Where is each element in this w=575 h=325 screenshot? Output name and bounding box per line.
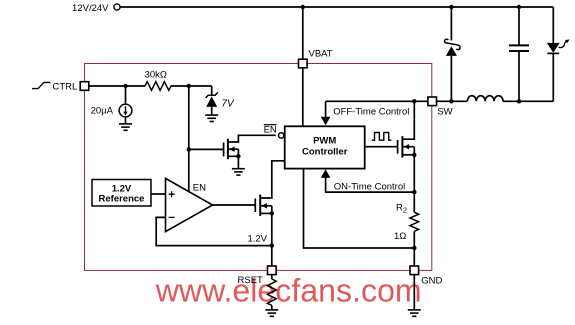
wire PWM bottom pin to sense node [304,169,415,248]
inductor L1 [467,96,503,102]
block PWM Controller [285,126,365,168]
wire VBAT to PWM controller [302,68,304,127]
junction SW line / Q3 drain [412,99,416,103]
capacitor C1 [509,45,529,51]
svg-text:Controller: Controller [302,147,348,158]
wire capacitor branch from top rail [518,7,520,45]
svg-text:1Ω: 1Ω [394,231,406,242]
wire op-amp output to Q2 gate [213,204,256,206]
wire SW line to inductor [437,100,468,102]
junction SW line / schottky [449,99,453,103]
wire OFF-time control with arrow into PWM top [321,101,331,125]
junction zener node / EN feed [187,84,191,88]
junction top rail / VBAT [301,5,305,9]
wire SW node line [326,100,428,102]
wire GND terminal to ground [413,275,415,309]
svg-text:VBAT: VBAT [309,49,333,60]
node 12V/24V terminal circle [114,4,120,10]
wire reference to op-amp + [151,193,166,195]
svg-text:20µA: 20µA [91,106,114,117]
junction EN feed / Q1 gate [187,147,191,151]
resistor R2 body [410,212,419,231]
transistor Q3 (power switch NMOS) [398,101,417,212]
svg-text:1.2V: 1.2V [247,234,267,245]
svg-text:GND: GND [421,275,442,286]
svg-text:ON-Time Control: ON-Time Control [334,181,405,192]
svg-text:RSET: RSET [238,275,264,286]
junction ON-time / Q3 source [412,190,416,194]
node CTRL terminal square [80,82,89,91]
node ENbar circle at PWM input [279,133,284,138]
wire PWM output to Q3 gate [365,146,398,148]
node CTRL waveform glyph [32,82,51,88]
ground below RSET [265,310,278,316]
resistor RSET body [267,275,276,309]
ground below zener [205,115,218,121]
transistor Q1 (EN driver NMOS) [224,135,276,168]
svg-text:EN: EN [264,124,277,135]
svg-text:SW: SW [437,107,452,118]
ground below GND terminal [408,310,421,316]
wire resistor to zener node [171,85,212,87]
wire VBAT drop from rail [302,7,304,59]
svg-text:OFF-Time Control: OFF-Time Control [333,106,409,117]
current source I1 symbol [119,86,132,123]
junction R2 bottom / PWM sense [412,246,416,250]
junction CTRL / current source [123,84,127,88]
wire CTRL to resistor R 30k [89,85,145,87]
svg-text:www.elecfans.com: www.elecfans.com [155,273,422,309]
svg-text:PWM: PWM [313,136,336,147]
svg-text:30kΩ: 30kΩ [145,69,167,80]
svg-text:EN: EN [193,182,206,193]
svg-text:Reference: Reference [99,194,145,205]
node VBAT terminal square [299,59,308,68]
squarewave glyph at PWM output [372,133,392,141]
node SW terminal square [428,97,437,106]
LED D3 [547,43,560,101]
ground below current source [119,124,132,130]
svg-text:1.2V: 1.2V [112,183,132,194]
op-amp U1 comparator [166,178,213,231]
node ENbar label with overline [264,124,277,135]
svg-text:CTRL: CTRL [53,81,78,92]
junction feedback / source node [270,243,274,247]
wire schottky branch from top rail [450,7,452,41]
junction top rail / capacitor [517,5,521,9]
transistor Q2 (RSET regulator NMOS) [255,161,284,266]
resistor 30k body [145,82,171,91]
LED light arrow squiggle [559,40,570,48]
wire R2 to GND terminal [413,231,415,266]
svg-text:12V/24V: 12V/24V [72,3,109,14]
ground below Q1 [232,169,245,175]
wire inductor to LED bottom [503,100,553,102]
wire Q1 gate [189,148,224,150]
node RSET terminal square [268,266,277,275]
junction top rail / schottky [449,5,453,9]
wire ON-time control with arrow into PWM bottom [321,169,415,192]
boundary box (red) [85,64,432,271]
svg-text:7V: 7V [221,98,235,109]
wire LED branch (top right corner) [552,7,554,43]
junction SW line / capacitor [517,99,521,103]
node GND terminal square [410,266,419,275]
diode D2 schottky (freewheel) [445,39,461,101]
wire feedback (inverting input to 1.2V node) [156,217,272,245]
wire top supply rail [120,6,553,8]
zener diode D1 7V [206,86,218,115]
wire EN feed vertical [188,86,190,192]
block 1.2V Reference [92,180,151,207]
wire capacitor to SW line [518,52,520,101]
